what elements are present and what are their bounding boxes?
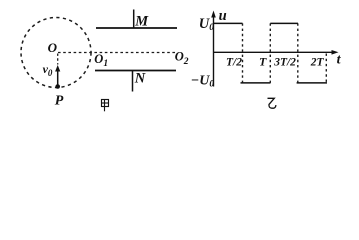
svg-text:u: u	[219, 8, 227, 24]
dashed transition at 3T/2	[297, 23, 299, 83]
t axis	[214, 51, 334, 53]
plate N terminal wire	[132, 71, 134, 92]
point P dot	[55, 84, 60, 89]
svg-text:M: M	[134, 14, 149, 30]
svg-text:N: N	[134, 71, 146, 87]
v0 arrowhead	[55, 65, 60, 72]
plate N	[95, 70, 176, 72]
waveform: first positive half-period at +U0	[214, 22, 243, 24]
svg-text:T/2: T/2	[226, 57, 242, 69]
svg-text:2T: 2T	[310, 57, 325, 69]
plate M	[96, 27, 177, 29]
v0 arrow shaft	[57, 71, 59, 87]
waveform: second positive half-period at +U0	[270, 22, 298, 24]
svg-text:3T/2: 3T/2	[273, 57, 296, 69]
waveform: second negative half-period at -U0	[297, 82, 327, 84]
label yi (Chinese: second figure)	[268, 98, 276, 108]
svg-text:T: T	[259, 55, 267, 69]
u axis (right graph)	[213, 14, 215, 87]
u axis arrowhead	[211, 11, 216, 18]
label jia (Chinese: first figure)	[102, 100, 109, 112]
dashed transition at T/2	[242, 23, 244, 83]
dashed circular field region	[21, 18, 91, 88]
dashed line from O down to v0 arrow tip	[57, 54, 59, 65]
svg-text:O: O	[48, 40, 58, 55]
dashed transition at T	[269, 23, 271, 83]
waveform: first negative half-period at -U0	[241, 82, 271, 84]
dashed center line from O to O2	[58, 52, 176, 54]
dashed marker at 2T	[325, 54, 327, 83]
plate M terminal wire	[133, 10, 135, 29]
t axis arrowhead	[332, 50, 339, 55]
svg-text:P: P	[55, 94, 64, 109]
